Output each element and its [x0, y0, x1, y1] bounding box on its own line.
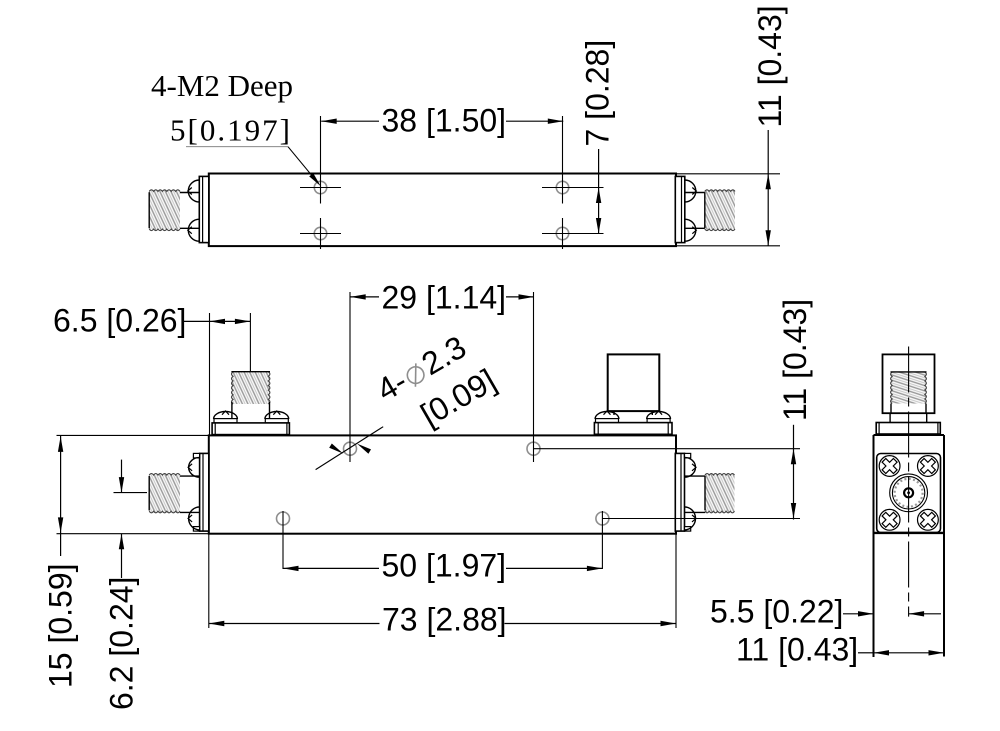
- top view: left SMA connector flange plate: [199, 176, 209, 242]
- front view: left SMA connector flange plate: [200, 453, 209, 531]
- svg-text:29 [1.14]: 29 [1.14]: [382, 280, 507, 316]
- front view: body top/bottom edge extension lines to left: [57, 434, 209, 436]
- front view: top-right connector screw heads: [595, 411, 619, 419]
- dimension 11 [0.43] (hole rows spacing): [793, 425, 795, 520]
- threads: [232, 372, 270, 404]
- label 4-dia2.3 [0.09] with leader through hole: [371, 329, 473, 408]
- svg-text:11 [0.43]: 11 [0.43]: [752, 5, 788, 127]
- top view: right SMA connector flange plate: [675, 176, 685, 242]
- front view: right connector screw heads: [685, 457, 696, 477]
- svg-text:4-M2 Deep: 4-M2 Deep: [151, 68, 293, 103]
- dimension 29 [1.14]: [350, 296, 379, 298]
- svg-text:11 [0.43]: 11 [0.43]: [777, 299, 813, 421]
- front view: top-right connector flange plate: [594, 423, 672, 435]
- side view: flange: [876, 423, 940, 435]
- side view: body: [873, 435, 875, 657]
- front view: four 2.3mm mounting holes: [344, 442, 357, 455]
- dimension 11 [0.43] (top view height): [677, 173, 781, 175]
- threads: [705, 474, 735, 513]
- svg-text:6.2 [0.24]: 6.2 [0.24]: [104, 577, 140, 710]
- top view: coupler body outline: [209, 174, 676, 247]
- dimension 6.2 [0.24]: [121, 460, 123, 493]
- side view: vertical centerline: [908, 347, 910, 617]
- threads: [705, 190, 735, 230]
- threads: [149, 474, 180, 513]
- svg-text:11 [0.43]: 11 [0.43]: [736, 632, 858, 668]
- dimension 38 [1.50]: [321, 120, 379, 122]
- svg-text:50 [1.97]: 50 [1.97]: [382, 548, 507, 584]
- dimension 50 [1.97]: [283, 567, 379, 569]
- dimension 7 [0.28]: [598, 149, 600, 234]
- threads: [149, 190, 180, 230]
- dimension 15 [0.59]: [60, 435, 62, 556]
- front view: left connector screw heads: [189, 457, 200, 477]
- top view: four M2 tapped holes with crosshairs: [314, 181, 326, 193]
- svg-text:5.5 [0.22]: 5.5 [0.22]: [710, 594, 843, 630]
- threads: [891, 372, 926, 404]
- side view: neck: [889, 413, 891, 422]
- top view: right connector barrel: [685, 192, 705, 194]
- front view: top-right square connector block: [608, 354, 660, 411]
- front view: right SMA connector flange plate: [675, 453, 684, 531]
- svg-text:7 [0.28]: 7 [0.28]: [580, 40, 616, 147]
- svg-text:5[0.197]: 5[0.197]: [170, 113, 292, 148]
- svg-text:15 [0.59]: 15 [0.59]: [43, 563, 79, 688]
- top view: right connector screw heads: [685, 180, 696, 202]
- front view: left connector barrel: [180, 475, 200, 477]
- front view: coupler body outline: [209, 435, 676, 533]
- side view: four phillips screws: [879, 456, 900, 477]
- top view: left connector screw heads: [188, 180, 199, 202]
- front view: top-left SMA connector (vertical): [249, 313, 251, 372]
- front view: right connector barrel: [685, 475, 706, 477]
- svg-text:38 [1.50]: 38 [1.50]: [382, 103, 507, 139]
- svg-text:6.5 [0.26]: 6.5 [0.26]: [53, 303, 186, 339]
- side view: top connector outer square: [883, 354, 935, 413]
- top view: left connector barrel: [180, 192, 200, 194]
- front view: top-left connector flange plate: [212, 423, 289, 435]
- dimension 73 [2.88]: [208, 534, 210, 628]
- front view: top-left connector screw heads: [214, 412, 238, 419]
- side view: central SMA jack: [890, 474, 928, 512]
- hole extension lines: [349, 292, 351, 462]
- svg-text:73 [2.88]: 73 [2.88]: [382, 602, 507, 638]
- side view: front plate with screws: [877, 454, 941, 533]
